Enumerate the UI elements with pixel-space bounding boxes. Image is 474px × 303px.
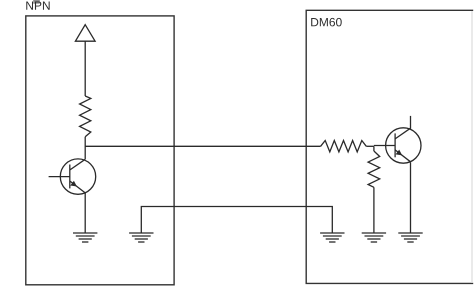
ground (right box, link wire) xyxy=(320,233,344,242)
resistor R3 (vertical, right box) xyxy=(368,151,380,187)
node B (base junction) xyxy=(373,146,375,151)
wire R3 to ground xyxy=(373,187,375,233)
subcircuit box NPN xyxy=(26,16,174,285)
wire VCC to R1 xyxy=(84,41,86,96)
ground (Q1 emitter) xyxy=(73,233,97,242)
ground (R3) xyxy=(362,233,386,242)
ground (left box, link wire) xyxy=(129,233,153,242)
node A (collector junction) and long wire to DM60 input xyxy=(85,145,320,147)
cursor artifact over NPN label xyxy=(33,0,40,4)
wire Q2 emitter to ground xyxy=(410,162,412,233)
label NPN xyxy=(26,1,49,9)
wire Q1 emitter to ground xyxy=(84,193,86,233)
resistor R1 (vertical, left box) xyxy=(80,96,91,137)
power supply triangle VCC xyxy=(75,25,95,42)
wire R1 to Q1 collector xyxy=(84,137,86,160)
transistor Q2 xyxy=(374,128,421,163)
ground (Q2 emitter) xyxy=(398,233,422,242)
wire R2 to Q2 base xyxy=(366,145,374,147)
transistor Q1 xyxy=(49,159,96,194)
wire Q2 collector stub xyxy=(410,116,412,129)
resistor R2 (horizontal, right box) xyxy=(321,141,367,152)
wire ground-to-ground link xyxy=(141,207,332,234)
label DM60 xyxy=(311,18,342,27)
subcircuit box DM60 xyxy=(306,10,473,283)
